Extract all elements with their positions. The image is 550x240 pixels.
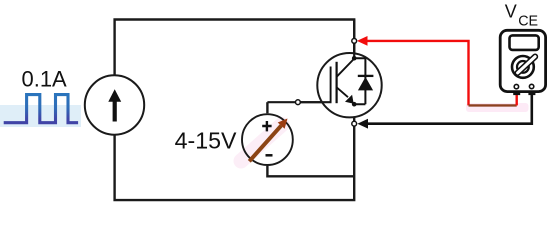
svg-text:0.1A: 0.1A bbox=[22, 66, 68, 91]
svg-text:V: V bbox=[505, 2, 517, 22]
svg-text:4-15V: 4-15V bbox=[175, 128, 237, 154]
svg-text:CE: CE bbox=[518, 13, 538, 29]
